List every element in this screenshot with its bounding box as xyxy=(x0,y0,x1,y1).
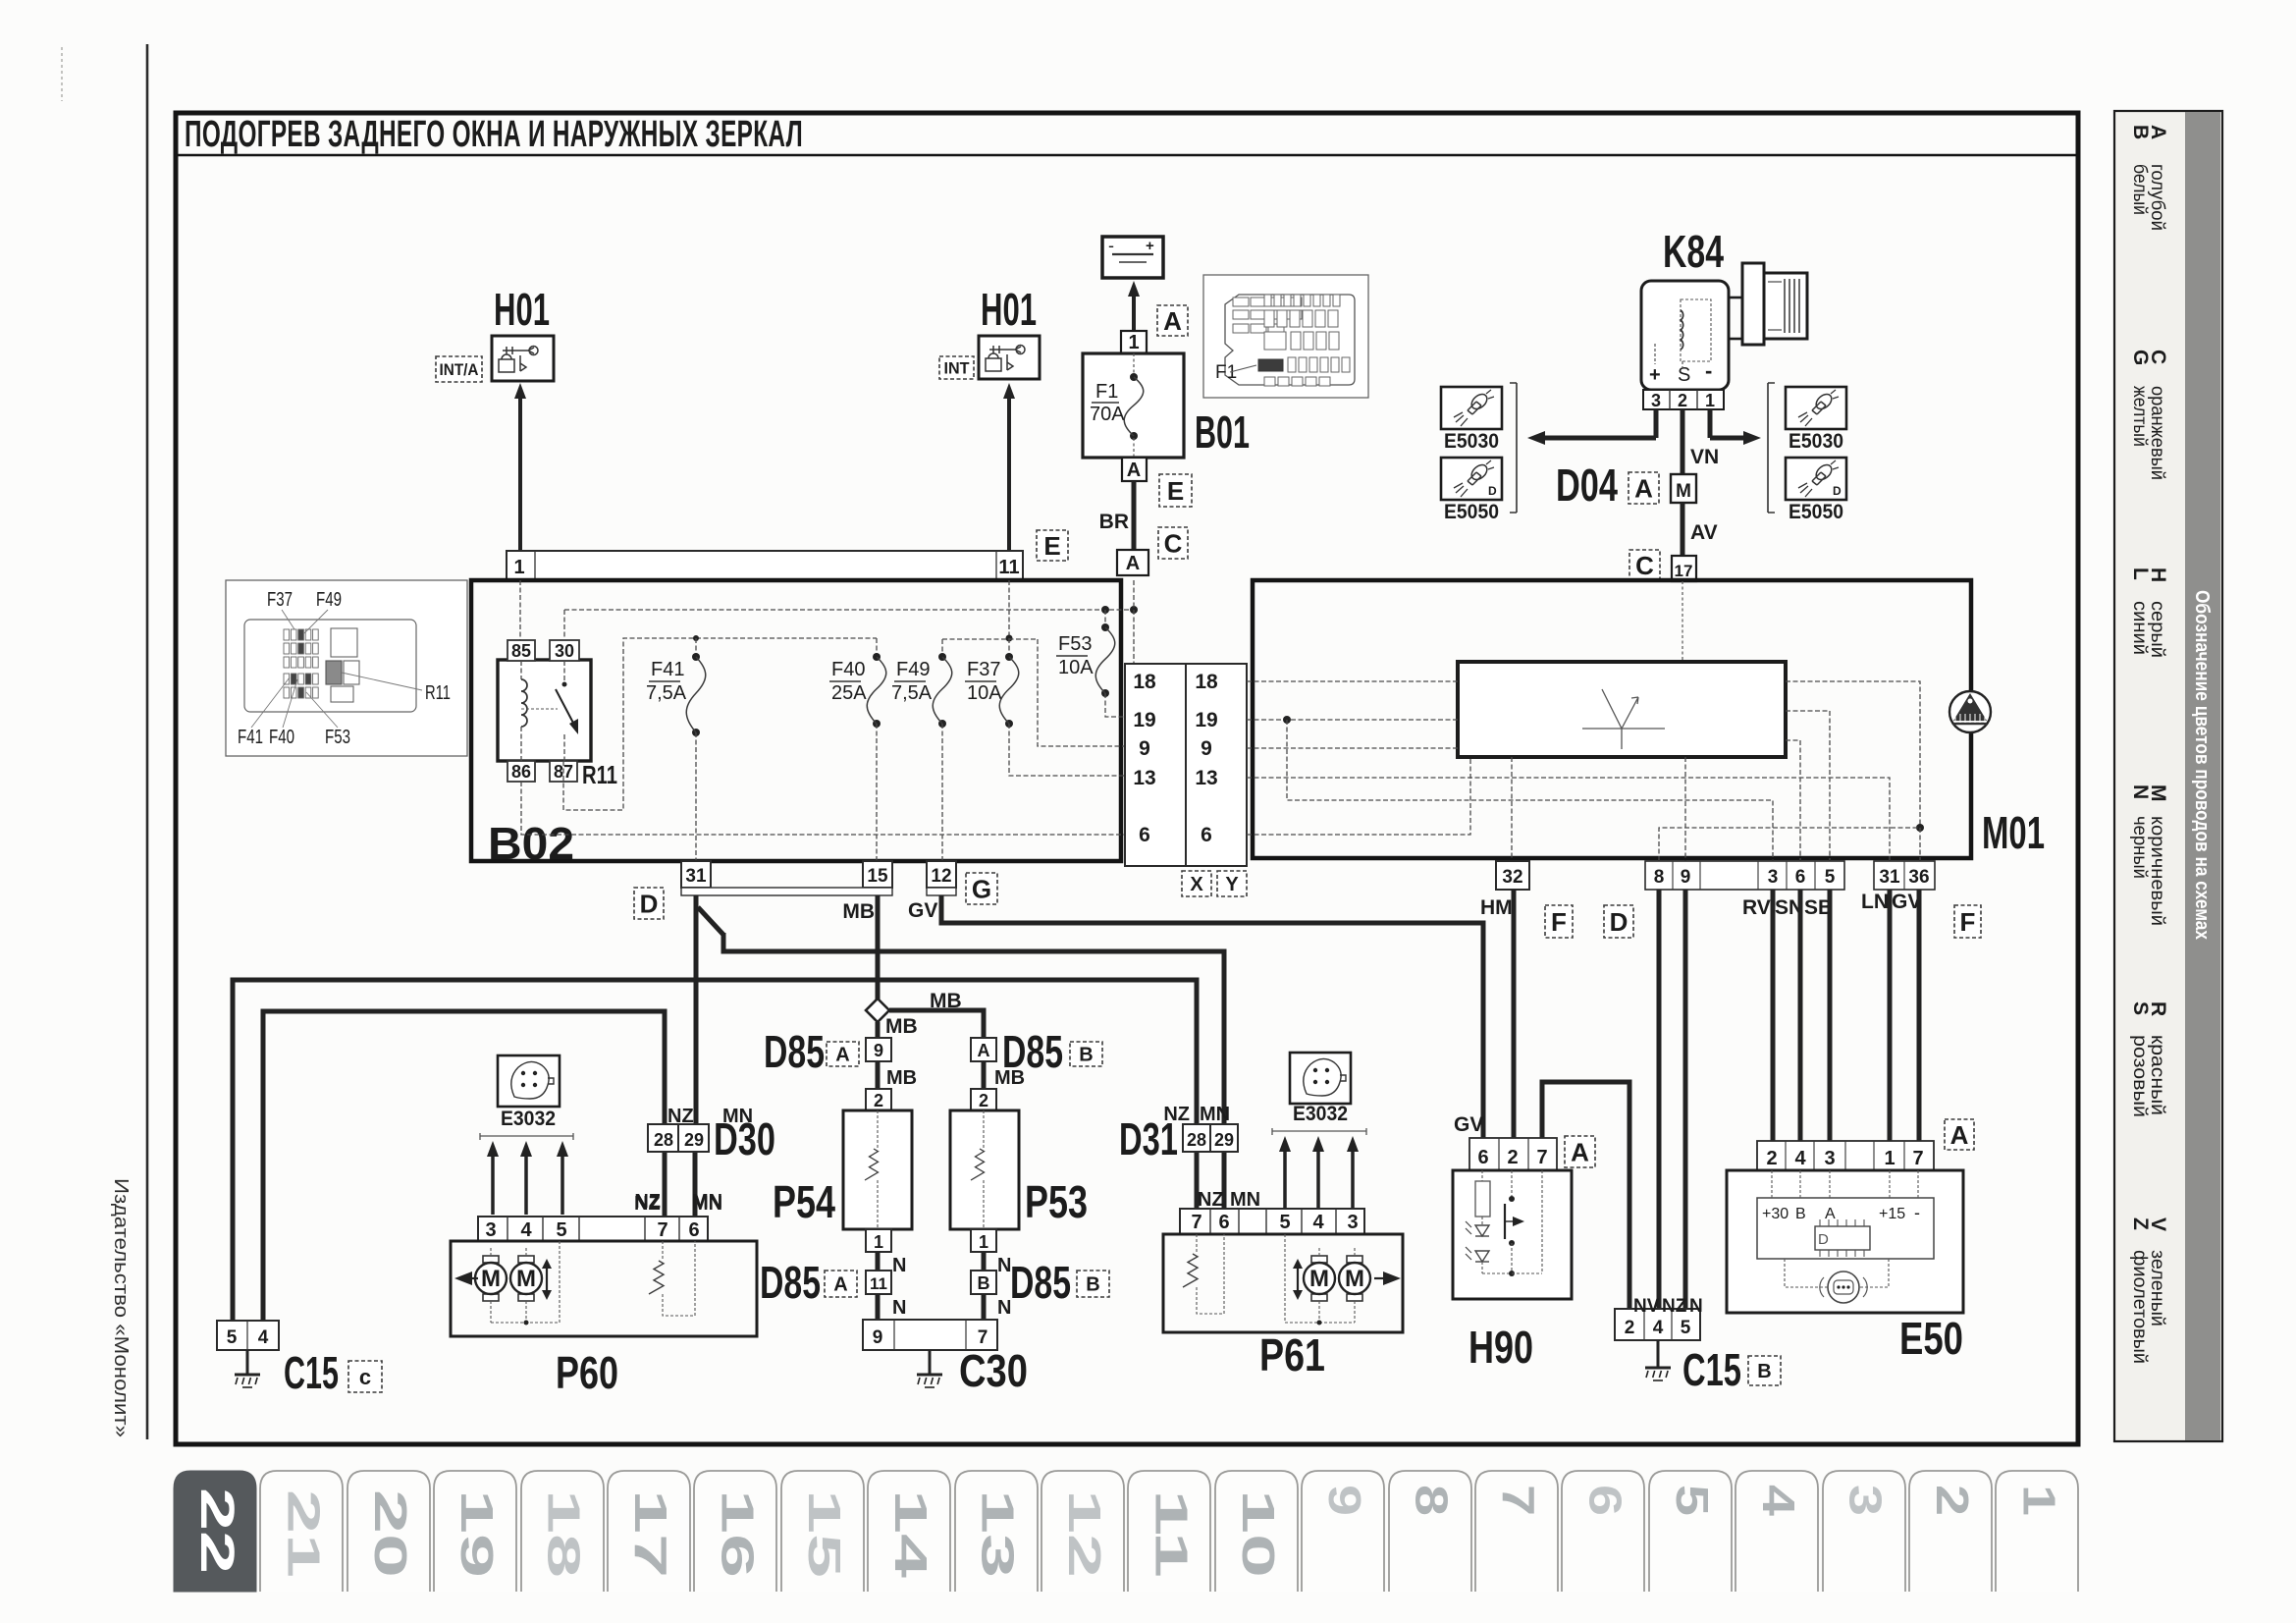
svg-text:MN: MN xyxy=(692,1193,722,1215)
row9 wire xyxy=(1247,747,1458,749)
svg-text:R11: R11 xyxy=(425,682,451,704)
svg-text:c: c xyxy=(359,1365,371,1389)
fuse location inset (B02) xyxy=(226,580,467,756)
svg-text:P54: P54 xyxy=(773,1176,835,1227)
svg-text:4: 4 xyxy=(520,1219,532,1241)
E50 motor icon xyxy=(1828,1271,1859,1303)
AV lead into inner unit xyxy=(1682,581,1683,662)
H01 (left) symbol box xyxy=(492,336,554,381)
svg-text:A: A xyxy=(1571,1137,1589,1166)
H90 switch body xyxy=(1453,1170,1572,1299)
relay pin 86 xyxy=(507,761,535,782)
P54 pin 1 xyxy=(866,1229,891,1252)
svg-text:D: D xyxy=(640,889,659,918)
svg-text:6: 6 xyxy=(1139,824,1150,846)
connector E3032 right xyxy=(1290,1053,1351,1104)
emblem on M01 edge xyxy=(1949,691,1991,732)
bracket under E3032 left xyxy=(480,1133,573,1140)
svg-text:A: A xyxy=(978,1041,990,1060)
svg-text:1: 1 xyxy=(1884,1148,1895,1169)
relay pin 85 xyxy=(507,640,535,661)
svg-text:13: 13 xyxy=(973,1489,1024,1578)
svg-text:B: B xyxy=(1757,1361,1771,1382)
svg-text:ПОДОГРЕВ ЗАДНЕГО ОКНА И НАРУЖН: ПОДОГРЕВ ЗАДНЕГО ОКНА И НАРУЖНЫХ ЗЕРКАЛ xyxy=(185,114,803,155)
svg-text:4: 4 xyxy=(1794,1148,1806,1169)
svg-text:6: 6 xyxy=(1201,824,1212,846)
svg-text:10A: 10A xyxy=(1058,657,1094,678)
svg-text:3: 3 xyxy=(1841,1485,1892,1516)
svg-text:E3032: E3032 xyxy=(501,1108,556,1130)
wires D31 to P61 xyxy=(1195,1152,1200,1209)
svg-text:B02: B02 xyxy=(488,818,574,869)
svg-text:10A: 10A xyxy=(967,682,1002,704)
svg-text:P61: P61 xyxy=(1259,1329,1325,1380)
svg-text:S: S xyxy=(1678,364,1690,386)
svg-text:17: 17 xyxy=(1675,562,1693,580)
main diagram frame xyxy=(176,113,2078,1444)
node X xyxy=(1182,871,1211,896)
wire from K84 pin1 to E5030/E5050 right xyxy=(1708,409,1713,438)
rail to pin9 row xyxy=(1038,639,1125,746)
svg-text:4: 4 xyxy=(1312,1212,1324,1233)
svg-text:12: 12 xyxy=(931,866,951,887)
wire MB branch to D85 B xyxy=(889,1010,984,1038)
page left margin rule xyxy=(146,44,149,1439)
P60 body xyxy=(451,1241,757,1336)
M01 dashboard module box xyxy=(1253,580,1971,858)
svg-text:MB: MB xyxy=(886,1067,917,1089)
svg-text:7: 7 xyxy=(1191,1212,1201,1233)
svg-text:18: 18 xyxy=(1195,671,1218,693)
svg-text:L: L xyxy=(2129,568,2152,580)
P54 pin 2 xyxy=(866,1089,891,1110)
svg-text:18: 18 xyxy=(539,1489,590,1578)
wire B02/31 down (MN) xyxy=(694,895,699,1124)
supply rail y621 xyxy=(564,609,1134,611)
svg-text:-: - xyxy=(1914,1203,1920,1222)
svg-text:7: 7 xyxy=(1536,1147,1547,1168)
svg-text:1: 1 xyxy=(1128,332,1139,353)
svg-text:P53: P53 xyxy=(1025,1176,1088,1227)
svg-text:22: 22 xyxy=(190,1488,242,1574)
pin 17 into M01 xyxy=(1672,556,1696,581)
E50 IC symbol xyxy=(1815,1226,1870,1250)
K84 connector plate xyxy=(1742,263,1764,345)
ground connector C15 (B) xyxy=(1615,1309,1700,1340)
wire: H01 right feed arrow xyxy=(1007,395,1011,551)
svg-text:F41: F41 xyxy=(651,659,684,680)
svg-text:HM: HM xyxy=(1480,896,1513,919)
P60 arrows xyxy=(468,1277,478,1279)
E50 clock/control body xyxy=(1727,1170,1963,1313)
H90 illumination resistor xyxy=(1475,1181,1490,1217)
svg-text:70A: 70A xyxy=(1090,404,1125,425)
K84 relay body xyxy=(1641,281,1729,390)
svg-text:F49: F49 xyxy=(896,659,930,680)
svg-text:16: 16 xyxy=(712,1489,763,1578)
wire RV: M01/3 to E50/2 xyxy=(1771,890,1776,1141)
wire NZ: M01/8 to C15B/4 xyxy=(1657,890,1662,1309)
wire branch to D31 via bus xyxy=(698,907,723,935)
svg-text:3: 3 xyxy=(1824,1148,1835,1169)
svg-text:MB: MB xyxy=(885,1015,918,1038)
svg-text:C30: C30 xyxy=(959,1345,1028,1396)
svg-text:6: 6 xyxy=(1795,867,1806,888)
svg-text:1: 1 xyxy=(2013,1485,2064,1516)
X/Y interconnect strips xyxy=(1125,664,1186,866)
svg-text:D: D xyxy=(1833,484,1842,498)
svg-text:7,5A: 7,5A xyxy=(891,682,933,704)
E50 inner terminal box xyxy=(1757,1198,1934,1259)
svg-text:E3032: E3032 xyxy=(1293,1103,1348,1125)
B02 fuse/relay box xyxy=(471,580,1121,861)
svg-text:12: 12 xyxy=(1059,1489,1110,1578)
connector E5030 right xyxy=(1786,387,1846,429)
wire F40 to pin15 xyxy=(876,724,878,861)
svg-text:INT: INT xyxy=(944,359,971,378)
svg-text:E5050: E5050 xyxy=(1444,501,1499,523)
wires D30 to P60 xyxy=(663,1152,667,1217)
pin A into B02 xyxy=(1117,550,1148,575)
svg-text:RV: RV xyxy=(1742,896,1771,919)
svg-text:N: N xyxy=(892,1255,906,1276)
svg-text:5: 5 xyxy=(1279,1212,1290,1233)
svg-text:14: 14 xyxy=(885,1489,936,1579)
row6 wire to unit bottom xyxy=(1247,757,1470,835)
wire NZ: C15 pin4 bus to D30/28 xyxy=(263,1011,665,1321)
INT qualifier xyxy=(939,356,974,379)
svg-text:+: + xyxy=(1649,364,1661,386)
svg-text:VN: VN xyxy=(1690,446,1719,468)
E50 pin row 2 4 3 1 7 xyxy=(1757,1141,1934,1170)
bracket left pair xyxy=(1510,383,1517,513)
node D xyxy=(634,888,664,919)
svg-text:C15: C15 xyxy=(1682,1344,1741,1395)
svg-text:N: N xyxy=(997,1297,1011,1319)
H90 LEDs xyxy=(1475,1225,1489,1236)
svg-text:7: 7 xyxy=(1493,1485,1544,1516)
relay switch blade xyxy=(563,661,565,682)
wire N: M01/9 to C15B/5 xyxy=(1683,890,1688,1309)
connector E5030 left xyxy=(1441,387,1502,429)
svg-text:5: 5 xyxy=(227,1327,238,1348)
M01 inner control unit xyxy=(1458,662,1786,757)
svg-text:11: 11 xyxy=(998,557,1019,578)
svg-text:11: 11 xyxy=(1146,1489,1197,1578)
node E xyxy=(1159,474,1192,507)
svg-text:синий: синий xyxy=(2129,601,2150,655)
svg-text:D: D xyxy=(1610,907,1629,937)
M01 pin 32 xyxy=(1496,861,1529,890)
svg-text:розовый: розовый xyxy=(2129,1035,2150,1117)
svg-text:G: G xyxy=(2129,350,2152,365)
svg-text:2: 2 xyxy=(874,1091,883,1110)
svg-text:MN: MN xyxy=(1200,1104,1230,1125)
F1 dark fuse xyxy=(1258,359,1283,371)
svg-text:Обозначение цветов проводов на: Обозначение цветов проводов на схемах xyxy=(2191,590,2213,940)
svg-text:-: - xyxy=(1705,358,1712,383)
svg-text:5: 5 xyxy=(1667,1485,1718,1516)
svg-text:85: 85 xyxy=(511,641,531,661)
svg-text:2: 2 xyxy=(1678,391,1687,410)
relay pin 87 xyxy=(550,761,577,782)
svg-text:6: 6 xyxy=(688,1219,699,1241)
svg-text:B: B xyxy=(2129,125,2152,139)
K84 connector bridge xyxy=(1729,297,1742,299)
node A (battery) xyxy=(1157,305,1188,336)
wire F41 to pin31 xyxy=(695,732,697,861)
svg-text:M: M xyxy=(1676,481,1691,502)
svg-text:G: G xyxy=(972,874,991,903)
node C xyxy=(1158,527,1188,559)
ground connector C15 (c) xyxy=(217,1321,279,1350)
wire NV: H90/7 to C15B/2 xyxy=(1542,1082,1629,1309)
svg-text:фиолетовый: фиолетовый xyxy=(2129,1250,2150,1364)
svg-text:20: 20 xyxy=(365,1489,416,1578)
P61 internal wiring xyxy=(1318,1248,1320,1256)
svg-text:B: B xyxy=(1795,1206,1806,1222)
svg-text:19: 19 xyxy=(1195,709,1217,731)
svg-text:A: A xyxy=(835,1045,849,1066)
H90 pin row 6 2 7 xyxy=(1469,1138,1557,1170)
svg-text:E5030: E5030 xyxy=(1444,430,1499,453)
svg-text:X: X xyxy=(1190,874,1203,895)
wire from K84 pin3 to E5030/E5050 left xyxy=(1654,409,1659,438)
svg-text:D04: D04 xyxy=(1556,460,1618,511)
connector E5050 left xyxy=(1441,458,1502,500)
wire BR: B01 to B02 pin A xyxy=(1132,481,1137,550)
svg-text:AV: AV xyxy=(1690,521,1718,544)
svg-text:K84: K84 xyxy=(1663,226,1724,277)
svg-text:F41: F41 xyxy=(238,727,263,748)
wire VN: K84 pin2 down xyxy=(1681,409,1685,474)
svg-text:2: 2 xyxy=(1625,1318,1635,1338)
svg-text:32: 32 xyxy=(1502,867,1522,888)
svg-text:P60: P60 xyxy=(556,1347,618,1398)
svg-text:13: 13 xyxy=(1133,767,1155,789)
wire pin1 to relay 85 xyxy=(519,580,521,640)
svg-text:3: 3 xyxy=(1768,867,1779,888)
H01 (right) symbol box xyxy=(979,336,1040,379)
wire colour legend sidebar xyxy=(2114,111,2222,1441)
wire SB: M01/5 to E50/3 xyxy=(1828,890,1833,1141)
relay 87 to F41/F40 rail xyxy=(563,638,877,810)
svg-text:N: N xyxy=(1689,1296,1703,1317)
svg-text:NZ: NZ xyxy=(634,1193,661,1215)
svg-text:N: N xyxy=(2129,784,2152,799)
row19 branch to pin3 xyxy=(1287,720,1773,861)
svg-text:NV: NV xyxy=(1633,1296,1660,1317)
svg-text:4: 4 xyxy=(1653,1318,1664,1338)
svg-text:F53: F53 xyxy=(1058,633,1092,655)
svg-text:86: 86 xyxy=(511,762,531,782)
wire LN: M01/31 to E50/1 xyxy=(1888,890,1893,1141)
node G xyxy=(966,873,997,904)
D85 B lower xyxy=(971,1271,996,1294)
svg-text:5: 5 xyxy=(1825,867,1836,888)
B02 pin 12 xyxy=(927,861,956,888)
svg-text:M: M xyxy=(1345,1266,1364,1292)
pin 1 of B01 xyxy=(1121,331,1147,353)
P61 body xyxy=(1163,1234,1403,1332)
svg-text:D85: D85 xyxy=(764,1026,825,1077)
svg-text:28: 28 xyxy=(654,1130,673,1150)
svg-text:15: 15 xyxy=(867,866,888,887)
svg-text:13: 13 xyxy=(1195,767,1217,789)
K84 coil xyxy=(1681,299,1711,361)
svg-text:-: - xyxy=(1108,236,1114,255)
K84 connector housing xyxy=(1764,273,1807,339)
svg-text:31: 31 xyxy=(685,866,707,887)
svg-text:25A: 25A xyxy=(831,682,867,704)
svg-text:31: 31 xyxy=(1879,867,1900,888)
svg-text:D85: D85 xyxy=(760,1257,821,1308)
svg-text:7: 7 xyxy=(657,1219,667,1241)
pin8/pin36 link xyxy=(1659,828,1920,861)
wire 30 riser to 621 rail xyxy=(563,610,565,640)
row19 wire xyxy=(1247,719,1458,721)
wire: B01 pin1 to battery xyxy=(1132,293,1136,331)
svg-text:9: 9 xyxy=(873,1327,883,1348)
svg-text:белый: белый xyxy=(2129,164,2150,215)
unit to pin6 xyxy=(1786,740,1800,861)
svg-text:+: + xyxy=(1146,238,1154,254)
wire MB from B02/15 xyxy=(876,895,881,1000)
R11 relay (dark) in inset xyxy=(326,661,342,684)
svg-text:9: 9 xyxy=(1319,1485,1370,1516)
svg-text:4: 4 xyxy=(1753,1485,1804,1517)
svg-text:MB: MB xyxy=(994,1067,1025,1089)
svg-text:+15: +15 xyxy=(1879,1206,1905,1222)
node E near pin11 xyxy=(1037,530,1068,561)
MB splice diamond xyxy=(866,999,889,1022)
svg-text:S: S xyxy=(2129,1001,2152,1015)
svg-text:9: 9 xyxy=(1139,737,1150,760)
svg-text:21: 21 xyxy=(278,1489,329,1578)
P60 motor left xyxy=(483,1256,499,1263)
ground connector C30 xyxy=(863,1320,997,1350)
P54 heated window element xyxy=(843,1110,912,1229)
P61 motor right xyxy=(1347,1256,1362,1263)
svg-text:D85: D85 xyxy=(1010,1257,1071,1308)
svg-text:29: 29 xyxy=(684,1130,704,1150)
relay coil xyxy=(521,679,527,727)
wire: H01 left feed arrow xyxy=(518,395,522,551)
P60 internal wiring xyxy=(490,1248,492,1256)
svg-text:7,5A: 7,5A xyxy=(646,682,687,704)
svg-text:E: E xyxy=(1167,476,1184,506)
title: heated rear window and mirrors xyxy=(178,154,2076,156)
svg-text:19: 19 xyxy=(1133,709,1155,731)
svg-text:F: F xyxy=(1551,907,1567,937)
P60 motor right xyxy=(518,1256,534,1263)
svg-text:A: A xyxy=(1127,460,1141,481)
svg-text:2: 2 xyxy=(1766,1148,1777,1169)
svg-text:1: 1 xyxy=(979,1232,988,1252)
wire into P54 xyxy=(876,1061,881,1089)
INT/A qualifier xyxy=(436,356,482,382)
svg-text:Y: Y xyxy=(1225,874,1239,895)
svg-text:F37: F37 xyxy=(267,589,293,611)
svg-text:A: A xyxy=(1950,1120,1969,1150)
ground C15B xyxy=(1657,1340,1660,1368)
svg-text:C: C xyxy=(1635,551,1654,580)
svg-text:C15: C15 xyxy=(284,1347,339,1398)
svg-text:черный: черный xyxy=(2129,816,2150,879)
svg-text:B: B xyxy=(1086,1274,1099,1296)
svg-text:4: 4 xyxy=(258,1327,269,1348)
svg-text:6: 6 xyxy=(1218,1212,1229,1233)
svg-text:NZ: NZ xyxy=(1662,1296,1687,1317)
svg-text:M: M xyxy=(516,1266,536,1292)
svg-text:9: 9 xyxy=(1201,737,1212,760)
svg-text:A: A xyxy=(1825,1206,1836,1222)
svg-text:A: A xyxy=(1163,306,1182,336)
svg-text:3: 3 xyxy=(1347,1212,1358,1233)
M01 pin strip 8 9 3 6 5 xyxy=(1645,861,1844,890)
svg-text:2: 2 xyxy=(1507,1147,1518,1168)
P61 motor left xyxy=(1311,1256,1327,1263)
svg-text:F1: F1 xyxy=(1215,362,1237,383)
mirror symbol inside xyxy=(1582,689,1665,749)
wire GV: M01/36 to E50/7 xyxy=(1917,890,1922,1141)
BR riser into pin18 row xyxy=(1133,580,1135,610)
svg-text:A: A xyxy=(833,1274,847,1296)
svg-text:GV: GV xyxy=(908,899,937,922)
svg-text:F53: F53 xyxy=(325,727,350,748)
svg-text:M01: M01 xyxy=(1982,807,2045,858)
svg-text:C: C xyxy=(1164,528,1183,558)
svg-text:Издательство «Монолит»: Издательство «Монолит» xyxy=(110,1178,132,1437)
svg-text:B: B xyxy=(1079,1045,1093,1066)
svg-text:6: 6 xyxy=(1477,1147,1488,1168)
svg-text:E5050: E5050 xyxy=(1789,501,1843,523)
node C (right) xyxy=(1629,550,1660,580)
svg-text:5: 5 xyxy=(1681,1318,1691,1338)
svg-text:NZ: NZ xyxy=(1198,1189,1224,1211)
row18 wire xyxy=(1247,680,1458,682)
K84 pin row 3 2 1 xyxy=(1643,390,1724,409)
svg-text:H90: H90 xyxy=(1468,1322,1533,1373)
page tabs 22..1 xyxy=(174,1471,256,1592)
node A (D04) xyxy=(1629,472,1659,504)
wire AV xyxy=(1681,503,1685,556)
row13 wire to pin31 xyxy=(1247,778,1890,861)
svg-text:GV: GV xyxy=(1454,1113,1483,1136)
svg-text:28: 28 xyxy=(1187,1130,1206,1150)
bracket under E3032 right xyxy=(1272,1128,1366,1135)
svg-text:E5030: E5030 xyxy=(1789,430,1843,453)
ground C30 xyxy=(929,1350,932,1375)
svg-text:18: 18 xyxy=(1133,671,1156,693)
svg-text:8: 8 xyxy=(1654,867,1665,888)
connector E5050 right xyxy=(1786,458,1846,500)
svg-text:+30: +30 xyxy=(1762,1206,1789,1222)
bracket right pair xyxy=(1768,383,1775,513)
svg-text:3: 3 xyxy=(485,1219,496,1241)
svg-text:9: 9 xyxy=(874,1041,883,1060)
svg-text:9: 9 xyxy=(1681,867,1691,888)
F1 location inset xyxy=(1203,275,1368,398)
svg-text:NZ: NZ xyxy=(667,1106,694,1127)
D85 A lower pin 11 xyxy=(866,1271,891,1294)
H90 internal links xyxy=(1481,1170,1483,1181)
P60 pin row xyxy=(478,1217,708,1241)
svg-text:F1: F1 xyxy=(1095,381,1118,403)
svg-text:LN: LN xyxy=(1861,891,1889,913)
svg-text:INT/A: INT/A xyxy=(440,360,479,379)
svg-text:B01: B01 xyxy=(1195,406,1250,458)
